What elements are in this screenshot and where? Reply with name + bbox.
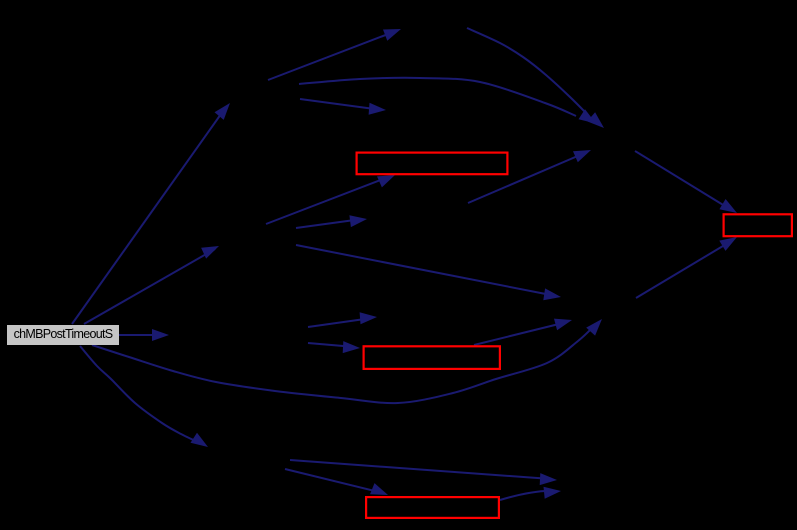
svg-text:chMBPostTimeoutS: chMBPostTimeoutS xyxy=(14,327,113,341)
